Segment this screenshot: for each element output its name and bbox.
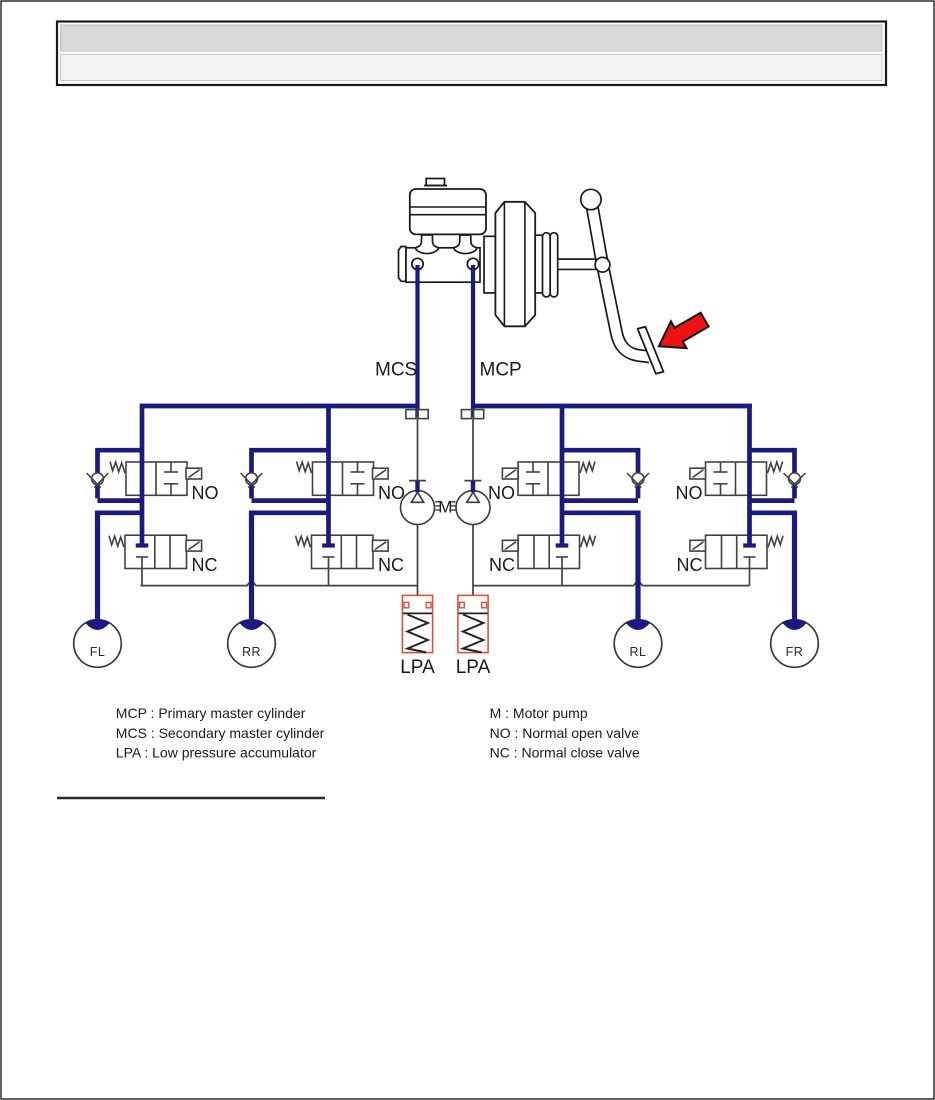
spring of NO valve (FL): [110, 462, 125, 474]
label LPA2: [456, 657, 491, 678]
booster drum: [495, 202, 535, 326]
wire main drop RR: [326, 404, 331, 544]
spring of NO valve (RL): [580, 462, 595, 474]
wire return line left circuit: [141, 580, 418, 586]
svg-text:M : Motor pump: M : Motor pump: [490, 705, 588, 721]
spring of NC valve (FR): [768, 536, 783, 548]
wheel cylinder FR: [771, 620, 819, 668]
master cylinder end cap: [399, 247, 407, 282]
spring of NC valve (RR): [296, 536, 311, 548]
pump P2 (primary circuit): [456, 481, 490, 525]
wire MCS union to pump P1: [417, 419, 419, 481]
booster mount plate left: [484, 236, 495, 293]
pedal push rod: [558, 258, 602, 270]
wire main drop FL: [140, 404, 145, 544]
svg-text:MCS: MCS: [375, 360, 417, 381]
svg-text:NO: NO: [488, 483, 515, 503]
wheel cylinder FL: [74, 620, 122, 668]
blocked port bar in NC valve (FL): [136, 543, 149, 547]
master cylinder reservoir: [410, 189, 486, 234]
check valve (RL): [627, 473, 649, 488]
wire main line right circuit: [473, 404, 752, 409]
spring of NO valve (RR): [297, 462, 312, 474]
solenoid coil of NO valve (FL): [186, 468, 202, 479]
solenoid valve NO (FL) body: [126, 462, 187, 495]
footnote rule: [57, 797, 325, 799]
svg-text:NC: NC: [677, 555, 703, 575]
svg-text:NO: NO: [676, 483, 703, 503]
wire wheel branch (RR): [252, 510, 329, 621]
label LPA1: [400, 657, 435, 678]
spring of NC valve (RL): [581, 536, 596, 548]
svg-text:FR: FR: [786, 645, 804, 659]
label NC (RL): [489, 555, 515, 575]
spring of NC valve (FL): [109, 536, 124, 548]
pedal arm top knob: [581, 189, 601, 209]
solenoid valve NC (FL) body: [125, 535, 187, 568]
wire pump P1 to LPA1 and return tee: [417, 508, 419, 595]
blocked port bar in NC valve (RL): [556, 543, 569, 547]
solenoid valve NO (FR) body: [706, 462, 767, 495]
pump P1 (secondary circuit): [401, 481, 435, 525]
solenoid valve NC (RL) body: [518, 535, 580, 568]
label MCP: [480, 360, 522, 381]
wire main drop RL: [560, 404, 565, 544]
label NC (RR): [378, 555, 404, 575]
svg-text:FL: FL: [90, 645, 106, 659]
svg-text:NC: NC: [192, 555, 218, 575]
solenoid valve NO (RR) body: [313, 462, 374, 495]
label NO (FL): [192, 483, 219, 503]
NC valve bottom port (RR): [323, 557, 335, 586]
legend column 1: [116, 705, 325, 761]
svg-text:MCS : Secondary master cylinde: MCS : Secondary master cylinder: [116, 725, 325, 741]
wire main drop FR: [747, 404, 752, 544]
low pressure accumulator LPA1: [402, 595, 432, 652]
wire check valve bypass bottom (RL): [562, 498, 638, 503]
header subtitle row: [61, 55, 883, 81]
union fitting on MCP line: [461, 410, 483, 419]
red arrow pointing at pedal: [659, 313, 709, 348]
check valve (RR): [241, 473, 263, 488]
svg-text:NC: NC: [378, 555, 404, 575]
wire check valve bypass top (RL): [562, 450, 638, 498]
blocked port bar in NC valve (RR): [322, 543, 335, 547]
wire check valve bypass bottom (FR): [750, 498, 795, 503]
header outer box: [57, 22, 886, 86]
wire check valve bypass top (FR): [750, 450, 795, 498]
NC valve bottom port (RL): [556, 557, 568, 586]
svg-text:NO: NO: [192, 483, 219, 503]
wire pump P2 to LPA2 and return tee: [472, 508, 474, 595]
wheel cylinder RL: [614, 620, 662, 668]
svg-text:LPA: LPA: [456, 657, 491, 678]
label NO (FR): [676, 483, 703, 503]
blocked port bar in NC valve (FR): [743, 543, 756, 547]
svg-text:MCP: MCP: [480, 360, 522, 381]
wire check valve bypass bottom (RR): [252, 498, 329, 503]
solenoid coil of NO valve (RL): [502, 468, 518, 479]
wheel cylinder RR: [228, 620, 276, 668]
wire MCP from master cylinder to union: [471, 265, 475, 418]
booster ring 1: [543, 233, 551, 297]
wire wheel branch (FL): [98, 510, 143, 621]
svg-text:NO : Normal open valve: NO : Normal open valve: [490, 725, 640, 741]
label NO (RL): [488, 483, 515, 503]
master cylinder reservoir cap: [424, 179, 447, 186]
solenoid valve NC (FR) body: [706, 535, 768, 568]
MCP outlet port: [467, 258, 478, 269]
reservoir grommet right: [454, 235, 477, 254]
label NC (FL): [192, 555, 218, 575]
wire check valve bypass top (FL): [98, 450, 143, 498]
solenoid coil of NC valve (RL): [502, 540, 518, 551]
solenoid coil of NO valve (RR): [373, 468, 389, 479]
booster plate right: [535, 235, 543, 293]
wire return line right circuit: [473, 580, 750, 586]
svg-text:NC: NC: [489, 555, 515, 575]
pedal arm: [591, 200, 650, 357]
wire check valve bypass bottom (FL): [98, 498, 143, 503]
booster ring 2: [550, 233, 558, 297]
svg-text:M: M: [438, 497, 452, 516]
wire MCP union to pump P2: [472, 419, 474, 481]
svg-text:LPA : Low pressure accumulator: LPA : Low pressure accumulator: [116, 745, 317, 761]
check valve (FL): [87, 473, 109, 488]
spring of NO valve (FR): [768, 462, 783, 474]
solenoid valve NC (RR) body: [312, 535, 374, 568]
solenoid coil of NC valve (FL): [186, 540, 202, 551]
wire main line left circuit: [140, 404, 418, 409]
svg-text:MCP : Primary master cylinder: MCP : Primary master cylinder: [116, 705, 306, 721]
svg-text:LPA: LPA: [400, 657, 435, 678]
svg-text:NO: NO: [378, 483, 405, 503]
union fitting on MCS line: [406, 410, 428, 419]
NC valve bottom port (FL): [136, 557, 148, 586]
header title row: [61, 25, 883, 51]
solenoid coil of NC valve (RR): [373, 540, 389, 551]
wire wheel branch (RL): [562, 510, 638, 621]
solenoid coil of NC valve (FR): [690, 540, 706, 551]
wire wheel branch (FR): [750, 510, 795, 621]
solenoid coil of NO valve (FR): [690, 468, 706, 479]
label NC (FR): [677, 555, 703, 575]
solenoid valve NO (RL) body: [518, 462, 579, 495]
pedal pad: [638, 327, 664, 374]
wire MCS from master cylinder to union: [415, 265, 419, 418]
label M motor: [438, 497, 452, 516]
master cylinder body: [406, 248, 480, 282]
low pressure accumulator LPA2: [458, 595, 488, 652]
pedal pivot: [595, 257, 610, 272]
NC valve bottom port (FR): [744, 557, 756, 586]
wire check valve bypass top (RR): [252, 450, 329, 498]
reservoir grommet left: [415, 235, 438, 254]
MCS outlet port: [412, 258, 423, 269]
svg-text:RL: RL: [630, 645, 647, 659]
legend column 2: [490, 705, 640, 761]
motor coupling marks: [435, 502, 455, 510]
label MCS: [375, 360, 417, 381]
check valve (FR): [784, 473, 806, 488]
label NO (RR): [378, 483, 405, 503]
svg-text:NC : Normal close valve: NC : Normal close valve: [490, 745, 640, 761]
svg-text:RR: RR: [242, 645, 261, 659]
